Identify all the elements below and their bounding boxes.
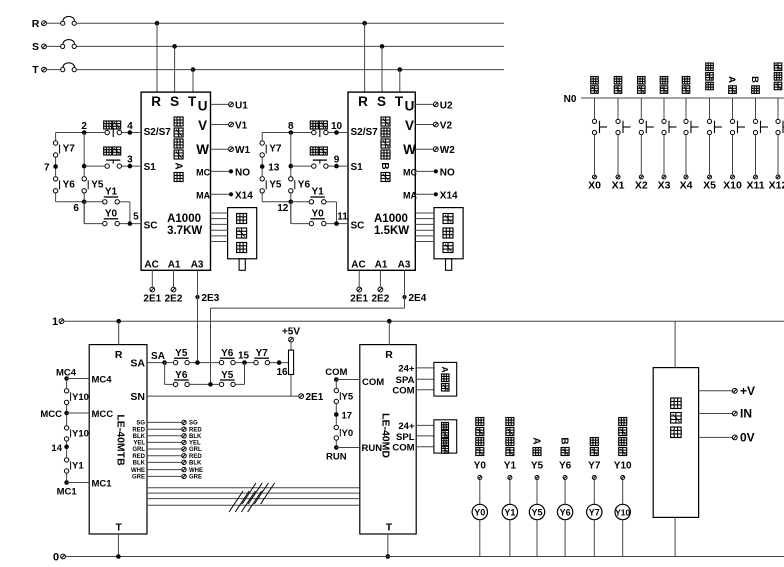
inverter A pin AC to terminal 2E1: [143, 270, 161, 304]
inverter B A1000 1.5KW box: [348, 92, 415, 270]
wire MC1 to MTB: [67, 482, 90, 484]
output terminal Y5: [535, 476, 539, 480]
lamp Y0: [472, 504, 487, 519]
wire lamp Y0 to bus 0: [479, 520, 481, 557]
node SA: [151, 351, 167, 365]
network B node 8: [288, 121, 294, 135]
svg-text:RUN: RUN: [362, 443, 383, 454]
svg-text:SG: SG: [189, 421, 198, 427]
pushbutton input X12: [776, 98, 784, 179]
terminal label X1: [612, 180, 625, 192]
output terminal label Y1: [504, 461, 517, 472]
svg-text:2E2: 2E2: [165, 294, 183, 305]
svg-text:Y10: Y10: [614, 461, 632, 472]
output terminal label Y10: [614, 461, 632, 472]
inverter B pin AC to terminal 2E1: [350, 270, 368, 304]
svg-text:+5V: +5V: [282, 327, 300, 338]
svg-text:A1000: A1000: [374, 213, 408, 225]
wire COM to MD: [336, 379, 360, 381]
svg-text:W1: W1: [235, 145, 250, 156]
PLC LE-40MD box: [360, 345, 416, 534]
MTB pin label SA: [130, 357, 145, 369]
svg-text:WHE: WHE: [189, 468, 203, 474]
svg-text:X14: X14: [440, 190, 458, 201]
wire terminal to lamp Y1: [509, 480, 511, 504]
lamp Y5: [529, 504, 544, 519]
contact Y6 row2: [173, 370, 189, 387]
svg-text:SC: SC: [351, 220, 365, 231]
inverter B A1000 1.5KW pin labels S2/S7 S1 SC: [351, 127, 379, 232]
svg-text:T: T: [386, 522, 393, 534]
wire S bus to inverter A pin S: [174, 46, 176, 92]
node RUN: [326, 445, 347, 462]
breaker and bus S: [32, 40, 504, 53]
node MCC: [64, 411, 69, 416]
svg-text:MC4: MC4: [92, 374, 113, 385]
network B contact Y6 chain2: [289, 177, 311, 193]
inverter A A1000 3.7KW value label 3.7KW: [167, 225, 202, 237]
svg-text:IN: IN: [740, 407, 752, 421]
wire terminal to lamp Y5: [536, 480, 538, 504]
svg-text:Y6: Y6: [175, 370, 188, 381]
bus 0 label: [53, 552, 65, 564]
junction dot MTB T on bus 0: [116, 554, 121, 559]
A-axis encoder input box: [434, 362, 457, 396]
junction dots on R bus: [155, 21, 367, 26]
pushbutton input X3: [662, 98, 677, 179]
svg-text:V: V: [405, 118, 414, 133]
svg-text:Y7: Y7: [256, 348, 269, 359]
svg-text:X0: X0: [588, 180, 601, 192]
lamp Y10: [615, 504, 631, 519]
svg-text:GRL: GRL: [189, 447, 202, 453]
output terminal Y0: [478, 476, 482, 480]
contact Y6 row1: [219, 348, 235, 365]
B-axis encoder input box: [434, 420, 457, 453]
node MC1: [57, 480, 78, 497]
svg-text:15: 15: [238, 351, 250, 362]
network A contact Y7: [53, 141, 75, 157]
svg-text:2E4: 2E4: [409, 293, 427, 304]
svg-text:16: 16: [276, 367, 288, 378]
svg-text:MC: MC: [196, 167, 210, 177]
breaker and bus R: [32, 16, 504, 29]
pushbutton input X5: [707, 98, 722, 179]
network A pushbutton 正转 (forward): [104, 147, 122, 168]
inverter B A1000 1.5KW outputs U V W: [415, 100, 455, 156]
svg-text:MCC: MCC: [92, 409, 114, 420]
svg-text:COM: COM: [392, 443, 414, 454]
svg-text:3.7KW: 3.7KW: [167, 225, 202, 237]
encoder A wires: [211, 213, 228, 242]
svg-text:MC1: MC1: [57, 487, 78, 498]
svg-text:Y6: Y6: [63, 179, 76, 190]
svg-text:A: A: [530, 437, 541, 444]
svg-text:T: T: [188, 94, 197, 109]
svg-text:LE-40MTB: LE-40MTB: [115, 414, 127, 466]
svg-text:NO: NO: [235, 167, 250, 178]
LE-40MTB name label: [115, 414, 127, 466]
svg-text:Y10: Y10: [72, 429, 89, 440]
wire bus1 to MD pin R: [388, 321, 390, 344]
svg-text:17: 17: [342, 411, 353, 422]
network A node 2: [81, 121, 87, 135]
wire SA down to row2: [164, 363, 166, 385]
lamp Y1: [502, 504, 517, 519]
wire MCC to MTB: [67, 412, 90, 414]
network A node 7: [44, 163, 58, 174]
breaker and bus T: [32, 63, 504, 76]
network B pushbutton Y0: [309, 208, 326, 225]
pushbutton input X10: [730, 98, 745, 179]
network B pushbutton 逆转 (reverse): [310, 121, 328, 137]
svg-text:COM: COM: [362, 377, 384, 388]
wire bus1 to MTB pin R: [118, 321, 120, 344]
svg-text:AC: AC: [351, 260, 365, 271]
svg-text:SA: SA: [151, 351, 165, 362]
svg-text:Y6: Y6: [298, 179, 311, 190]
network A wire chain1: [56, 133, 85, 202]
junction dot MD T on bus 0: [386, 554, 391, 559]
svg-text:B: B: [559, 437, 570, 444]
wire MC4 to MTB: [67, 378, 90, 380]
counter output 0V: [699, 431, 755, 445]
svg-text:Y0: Y0: [105, 208, 118, 219]
svg-text:Y5: Y5: [531, 461, 544, 472]
wire S bus to inverter B pin S: [381, 46, 383, 92]
svg-text:U: U: [198, 99, 208, 114]
junction dot bus1 to LE-40MD R: [387, 319, 392, 324]
svg-text:Y10: Y10: [72, 392, 89, 403]
svg-text:GRE: GRE: [189, 475, 202, 481]
network A node 5: [128, 211, 140, 226]
svg-text:Y7: Y7: [63, 144, 76, 155]
svg-text:R: R: [32, 18, 40, 30]
inverter A A1000 3.7KW value label A1000: [167, 213, 201, 225]
MTB pin label SN: [130, 391, 145, 403]
wire MTB SA to node SA: [147, 362, 165, 364]
contact Y5 row2: [219, 370, 235, 387]
network A wire chain2: [83, 133, 85, 224]
svg-text:WHE: WHE: [131, 468, 145, 474]
MTB encoder wire terminals: [147, 420, 203, 480]
svg-text:6: 6: [73, 203, 79, 214]
svg-text:Y7: Y7: [589, 508, 600, 518]
input label 启动: [591, 77, 599, 94]
label MCC: [40, 409, 62, 420]
output terminal label Y0: [474, 461, 487, 472]
svg-text:T: T: [395, 94, 404, 109]
svg-text:X1: X1: [612, 180, 625, 192]
wire counter to bus 0: [674, 517, 676, 556]
network A wire row1: [56, 132, 142, 134]
inverter B A1000 1.5KW value label A1000: [374, 213, 408, 225]
svg-text:X4: X4: [680, 180, 693, 192]
input label A轴: [726, 76, 737, 93]
MD pin label T: [386, 522, 393, 534]
terminal +5V: [282, 327, 300, 343]
pushbutton input X1: [616, 98, 631, 179]
inverter A A1000 3.7KW outputs U V W: [211, 100, 251, 156]
inverter A A1000 3.7KW pin labels V W MC MA: [196, 118, 210, 200]
output terminal label Y5: [531, 461, 544, 472]
network B contact Y5: [260, 177, 282, 193]
svg-text:Y1: Y1: [504, 508, 515, 518]
terminal label X5: [703, 180, 716, 192]
network B wire row2: [291, 165, 348, 167]
wire +5V to resistor: [290, 342, 292, 350]
network A node 3: [127, 155, 133, 169]
svg-text:S1: S1: [351, 162, 364, 173]
wire Y5-Y6 row1: [190, 362, 219, 364]
svg-text:2E2: 2E2: [372, 294, 390, 305]
network A wire row3: [84, 202, 130, 224]
output terminal Y10: [621, 476, 625, 480]
svg-text:2E1: 2E1: [350, 294, 368, 305]
svg-text:24+: 24+: [398, 363, 415, 374]
svg-text:X2: X2: [635, 180, 648, 192]
encoder A box 编码器: [228, 208, 257, 259]
svg-text:2: 2: [81, 121, 87, 132]
svg-text:RED: RED: [132, 427, 145, 433]
svg-text:11: 11: [337, 211, 348, 222]
network B pushbutton 正转 (forward): [310, 147, 328, 168]
svg-text:Y0: Y0: [311, 208, 324, 219]
svg-text:S: S: [377, 94, 386, 109]
bus N0 wire: [581, 97, 784, 99]
svg-text:W: W: [196, 142, 209, 157]
inverter A A1000 3.7KW pin labels R S T U: [151, 94, 207, 114]
svg-text:2E3: 2E3: [202, 293, 220, 304]
contact Y5 COM chain: [334, 388, 354, 403]
inverter B A1000 1.5KW motor axis label: [379, 117, 390, 182]
svg-text:Y7: Y7: [269, 144, 282, 155]
input label 预起动: [774, 63, 782, 90]
wire SN to terminal 2E1: [147, 395, 299, 397]
LE-40MD name label: [380, 413, 392, 458]
svg-text:3: 3: [127, 155, 133, 166]
inverter A A1000 3.7KW output MC to NO: [211, 167, 251, 178]
svg-text:5: 5: [133, 211, 139, 222]
svg-text:MC1: MC1: [92, 478, 113, 489]
svg-text:V: V: [198, 118, 207, 133]
svg-text:0: 0: [53, 552, 59, 564]
svg-text:7: 7: [44, 163, 50, 174]
svg-text:Y1: Y1: [72, 461, 84, 472]
svg-text:SPL: SPL: [396, 432, 415, 443]
wire Y0 to RUN node: [335, 441, 337, 448]
MD pin label COM: [362, 377, 384, 388]
svg-text:12: 12: [277, 203, 289, 214]
svg-text:MCC: MCC: [40, 409, 62, 420]
inverter B A1000 1.5KW pin labels AC A1 A3: [351, 260, 411, 271]
junction dot bus1 to LE-40MTB R: [116, 319, 121, 324]
label MC4: [56, 368, 77, 379]
wire T bus to inverter A pin T: [192, 70, 194, 93]
svg-text:Y1: Y1: [105, 187, 118, 198]
bus N0 label: [564, 94, 577, 105]
svg-text:Y0: Y0: [342, 428, 354, 439]
svg-text:COM: COM: [392, 385, 414, 396]
svg-text:X10: X10: [723, 180, 742, 192]
svg-text:Y0: Y0: [474, 508, 485, 518]
bus 1 wire: [64, 320, 784, 322]
contact Y5 row1: [173, 348, 189, 365]
terminal label X10: [723, 180, 742, 192]
wire SA row segment: [165, 362, 173, 364]
wire MD pin T to bus 0: [387, 534, 389, 557]
wire Y7-16 row1: [270, 362, 289, 364]
svg-text:S: S: [32, 41, 39, 53]
inverter A A1000 3.7KW output MA to X14: [211, 190, 254, 201]
encoder B box 编码器: [434, 208, 463, 259]
counter output IN: [699, 407, 752, 421]
wire terminal to lamp Y7: [593, 480, 595, 504]
inverter A A1000 3.7KW motor axis label: [172, 117, 183, 182]
svg-text:S2/S7: S2/S7: [144, 127, 172, 138]
pushbutton input X0: [592, 98, 607, 179]
node 2E3 junction row1: [195, 360, 200, 365]
wire row2 up to node 15: [236, 363, 245, 385]
network B contact Y7: [260, 141, 282, 157]
svg-text:SG: SG: [136, 421, 145, 427]
svg-text:SPA: SPA: [396, 375, 415, 386]
svg-text:Y5: Y5: [175, 348, 188, 359]
wire lamp Y5 to bus 0: [536, 520, 538, 557]
svg-text:Y0: Y0: [474, 461, 487, 472]
svg-text:Y5: Y5: [531, 508, 542, 518]
wire RUN to MD: [336, 447, 360, 449]
input label 停止: [614, 77, 622, 94]
terminal label X0: [588, 180, 601, 192]
inverter A A1000 3.7KW pin labels AC A1 A3: [144, 260, 204, 271]
svg-text:Y7: Y7: [588, 461, 601, 472]
wire COM chain mid: [335, 382, 337, 425]
svg-text:8: 8: [288, 121, 294, 132]
svg-text:+V: +V: [740, 384, 755, 398]
network A pushbutton Y1: [103, 187, 120, 204]
terminal 2E1 of SN: [299, 392, 324, 403]
cable bundle slash marks: [229, 483, 275, 512]
cable bundle wires: [147, 488, 360, 506]
svg-text:9: 9: [334, 155, 340, 166]
svg-text:GRL: GRL: [132, 447, 145, 453]
MD pin labels 24+ SPL COM: [392, 421, 415, 454]
network B node row2 junction: [289, 164, 294, 169]
network B node 13: [260, 163, 280, 174]
wire row2 segment b: [190, 383, 219, 385]
network B wire row3: [291, 202, 337, 224]
counter output +V: [699, 384, 755, 398]
svg-text:Y5: Y5: [221, 370, 234, 381]
svg-text:RUN: RUN: [326, 452, 347, 463]
svg-text:MA: MA: [403, 190, 417, 200]
network B pushbutton Y1: [309, 187, 326, 204]
network B node 9: [334, 155, 340, 169]
wire MC4-MCC chain: [66, 381, 68, 425]
wire lamp Y6 to bus 0: [564, 520, 566, 557]
network A wire row4: [84, 202, 141, 224]
svg-text:MC: MC: [403, 167, 417, 177]
PLC LE-40MTB box: [89, 345, 147, 534]
pushbutton input X11: [753, 98, 768, 179]
network B node 10: [331, 121, 343, 135]
node 17: [334, 411, 352, 422]
svg-text:MA: MA: [196, 190, 210, 200]
svg-text:BLK: BLK: [189, 434, 202, 440]
MTB encoder wire pin labels: [131, 421, 146, 481]
terminal label X3: [658, 180, 671, 192]
svg-text:R: R: [358, 94, 368, 109]
svg-text:N0: N0: [564, 94, 577, 105]
svg-text:A: A: [726, 76, 737, 83]
svg-text:R: R: [385, 349, 393, 361]
wire A3 of inverter B down and left (net 2E4): [211, 270, 405, 384]
svg-text:2E1: 2E1: [306, 392, 324, 403]
svg-text:YEL: YEL: [133, 441, 145, 447]
wire Y1 to MC1 node: [66, 474, 68, 483]
wire terminal to lamp Y0: [479, 480, 481, 504]
svg-text:2E1: 2E1: [143, 294, 161, 305]
inverter B node 2E4: [402, 293, 426, 304]
output label 预缠: [590, 438, 598, 456]
wire R bus to inverter A pin R: [156, 23, 158, 92]
network A node row2 junction: [82, 164, 87, 169]
svg-text:RED: RED: [189, 454, 202, 460]
svg-text:1.5KW: 1.5KW: [374, 225, 409, 237]
inverter A pin A1 to terminal 2E2: [165, 270, 183, 304]
output label B轴: [559, 437, 570, 455]
svg-text:0V: 0V: [740, 431, 755, 445]
inverter A A1000 3.7KW box: [141, 92, 210, 270]
node MC4: [64, 376, 69, 381]
inverter A node 2E3: [195, 293, 219, 304]
network B node 11: [334, 211, 348, 226]
network A contact Y5 chain2: [82, 177, 104, 193]
output label A轴: [530, 437, 541, 455]
svg-text:1: 1: [52, 316, 58, 328]
svg-text:U1: U1: [235, 100, 248, 111]
svg-text:A1000: A1000: [167, 213, 201, 225]
input label 减速: [660, 77, 668, 94]
svg-text:U2: U2: [440, 100, 453, 111]
svg-text:A: A: [172, 162, 183, 169]
node COM: [334, 377, 339, 382]
lamp Y6: [557, 504, 572, 519]
svg-text:S: S: [170, 94, 179, 109]
input label 急停: [682, 77, 690, 94]
wires MD to A-phase encoder box: [416, 368, 434, 390]
svg-text:R: R: [115, 349, 123, 361]
network B node 12: [277, 200, 293, 215]
pushbutton input X2: [639, 98, 654, 179]
wire row2 segment a: [165, 383, 173, 385]
svg-text:14: 14: [51, 443, 62, 454]
output label 张力自动: [506, 418, 514, 456]
svg-text:A1: A1: [168, 260, 181, 271]
inverter B pin A1 to terminal 2E2: [372, 270, 390, 304]
svg-text:X3: X3: [658, 180, 671, 192]
network B wire row1: [262, 132, 348, 134]
output label 原点指示: [476, 418, 484, 456]
bus 0 wire: [66, 556, 784, 558]
svg-text:Y6: Y6: [221, 348, 234, 359]
MTB pin label MC4: [92, 374, 113, 385]
wire lamp Y1 to bus 0: [509, 520, 511, 557]
contact Y1 chain: [64, 458, 84, 474]
wire terminal to lamp Y10: [622, 480, 624, 504]
network A wire row2: [84, 165, 141, 167]
